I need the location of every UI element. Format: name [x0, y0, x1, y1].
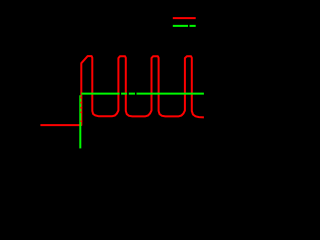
legend green dashed line sample [173, 25, 196, 27]
green onset vertical marker [79, 95, 81, 148]
red waveform [40, 56, 204, 125]
red flecks through marker dash gaps [80, 97, 82, 122]
legend red line sample [173, 17, 196, 19]
green threshold horizontal line [81, 93, 204, 95]
